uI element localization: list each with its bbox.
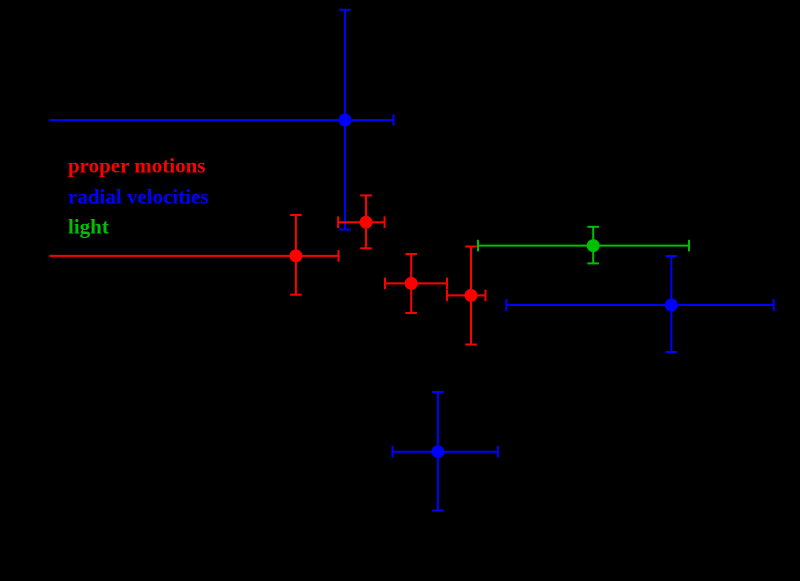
- svg-text:radial velocities: radial velocities: [68, 184, 209, 208]
- svg-text:light: light: [68, 215, 109, 239]
- svg-text:proper motions: proper motions: [68, 153, 205, 177]
